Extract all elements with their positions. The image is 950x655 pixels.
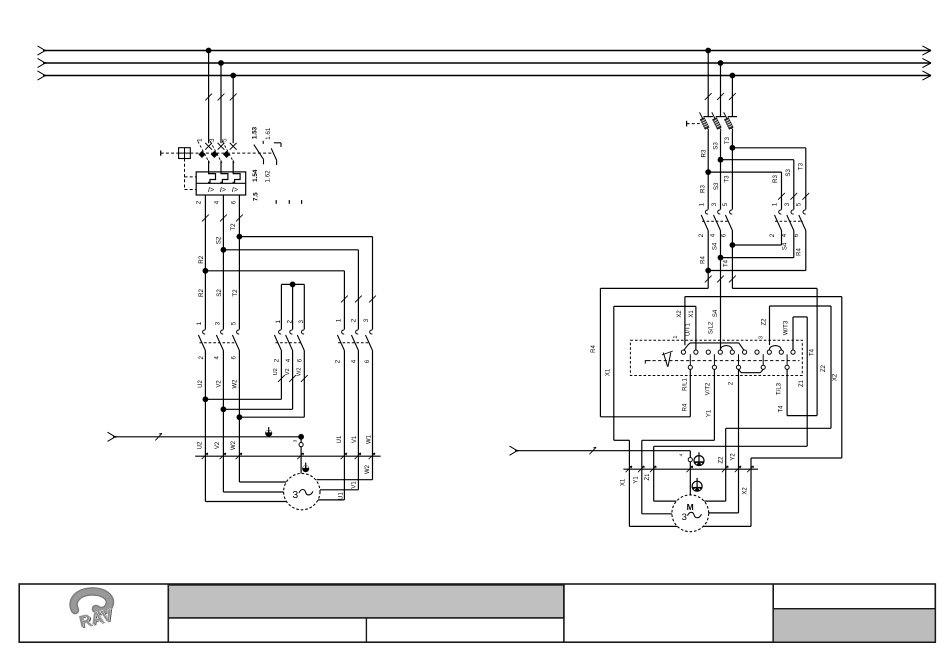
svg-text:5: 5: [795, 202, 802, 206]
svg-text:X2: X2: [743, 487, 749, 495]
svg-text:R4: R4: [797, 248, 803, 256]
svg-text:T4: T4: [778, 405, 784, 413]
svg-text:S3: S3: [712, 142, 719, 150]
svg-text:W2: W2: [231, 440, 237, 450]
svg-text:S4: S4: [713, 242, 719, 250]
svg-text:R2: R2: [198, 288, 205, 296]
svg-text:U1: U1: [339, 492, 345, 500]
svg-text:U1: U1: [337, 435, 343, 443]
svg-text:1: 1: [275, 320, 282, 324]
svg-text:W2: W2: [232, 379, 238, 389]
svg-text:5: 5: [722, 202, 729, 206]
svg-text:1: 1: [699, 202, 706, 206]
svg-text:X2: X2: [677, 310, 683, 318]
svg-text:R2: R2: [198, 255, 205, 263]
svg-text:Y2: Y2: [731, 453, 737, 461]
svg-text:2: 2: [287, 320, 294, 324]
svg-text:2: 2: [769, 233, 776, 237]
svg-text:R3: R3: [701, 149, 708, 157]
svg-text:R3: R3: [700, 184, 707, 192]
svg-text:1: 1: [196, 321, 203, 325]
svg-text:T3: T3: [723, 175, 730, 183]
svg-text:6: 6: [231, 200, 238, 204]
svg-text:R3: R3: [772, 174, 779, 182]
svg-text:3: 3: [209, 138, 216, 142]
svg-text:6: 6: [230, 356, 237, 360]
svg-text:T4: T4: [724, 259, 730, 267]
svg-text:U2: U2: [273, 368, 279, 375]
svg-text:R4: R4: [683, 403, 689, 411]
svg-text:6: 6: [720, 233, 727, 237]
svg-text:2: 2: [334, 359, 341, 363]
svg-text:4: 4: [781, 233, 788, 237]
svg-text:I>: I>: [220, 185, 226, 194]
svg-text:W2: W2: [365, 464, 371, 474]
svg-text:V2: V2: [217, 380, 223, 388]
svg-text:1.61: 1.61: [265, 127, 272, 140]
svg-text:M: M: [687, 502, 694, 512]
svg-text:V/T2: V/T2: [705, 382, 711, 395]
svg-text:S3: S3: [785, 168, 792, 176]
svg-text:2: 2: [729, 381, 735, 385]
svg-text:S4: S4: [713, 309, 719, 317]
svg-text:5: 5: [230, 321, 237, 325]
svg-text:Z2: Z2: [821, 364, 827, 372]
svg-text:6: 6: [364, 359, 371, 363]
svg-text:X2: X2: [833, 373, 839, 381]
svg-text:V2: V2: [285, 368, 291, 375]
svg-text:W/T3: W/T3: [783, 320, 789, 335]
svg-text:S/L2: S/L2: [709, 321, 715, 334]
svg-text:T3: T3: [797, 162, 804, 170]
svg-text:3: 3: [784, 202, 791, 206]
svg-text:4: 4: [350, 359, 357, 363]
svg-text:4: 4: [214, 200, 221, 204]
svg-text:X1: X1: [606, 368, 612, 376]
svg-text:1.53: 1.53: [252, 126, 259, 139]
svg-text:3: 3: [363, 318, 370, 322]
svg-text:7.5: 7.5: [252, 192, 259, 201]
svg-text:T4: T4: [809, 348, 815, 356]
svg-text:1: 1: [772, 202, 779, 206]
svg-text:5: 5: [221, 138, 228, 142]
svg-text:U2: U2: [198, 441, 204, 449]
svg-text:R/L1: R/L1: [683, 378, 689, 391]
svg-text:R4: R4: [591, 345, 597, 353]
svg-text:W1: W1: [367, 434, 373, 444]
svg-text:4: 4: [285, 358, 292, 362]
svg-text:T2: T2: [230, 223, 237, 231]
svg-text:U/T1: U/T1: [685, 322, 691, 336]
svg-text:3: 3: [292, 489, 298, 501]
svg-text:U2: U2: [198, 380, 204, 388]
svg-text:T3: T3: [724, 136, 731, 144]
svg-text:I>: I>: [232, 185, 238, 194]
svg-text:I>: I>: [208, 185, 214, 194]
svg-text:T/L3: T/L3: [777, 382, 783, 395]
svg-text:1.62: 1.62: [264, 170, 271, 183]
svg-text:1.54: 1.54: [252, 169, 259, 182]
svg-text:4: 4: [709, 233, 716, 237]
svg-text:1: 1: [336, 318, 343, 322]
svg-text:3: 3: [759, 336, 765, 339]
svg-text:3: 3: [682, 512, 687, 523]
svg-text:2: 2: [698, 233, 705, 237]
svg-text:Z2: Z2: [719, 456, 725, 464]
svg-text:V1: V1: [352, 435, 358, 443]
svg-text:T2: T2: [232, 289, 239, 297]
svg-text:V2: V2: [215, 441, 221, 449]
svg-text:X1: X1: [689, 310, 695, 318]
svg-text:W2: W2: [297, 368, 303, 376]
svg-text:2: 2: [274, 358, 281, 362]
svg-text:3: 3: [293, 439, 299, 442]
svg-text:X1: X1: [620, 478, 626, 486]
svg-text:Y1: Y1: [634, 476, 640, 484]
svg-text:3: 3: [711, 202, 718, 206]
svg-text:Z2: Z2: [762, 318, 768, 326]
svg-text:3: 3: [298, 320, 305, 324]
svg-text:RAV: RAV: [77, 606, 114, 631]
svg-text:4: 4: [678, 453, 684, 456]
svg-text:Y1: Y1: [707, 409, 713, 417]
svg-text:6: 6: [297, 358, 304, 362]
svg-text:4: 4: [214, 356, 221, 360]
svg-text:V1: V1: [351, 481, 357, 489]
svg-text:1: 1: [673, 335, 679, 338]
svg-text:Z1: Z1: [799, 379, 805, 387]
svg-text:S2: S2: [216, 236, 223, 244]
svg-text:3: 3: [215, 321, 222, 325]
svg-text:S3: S3: [713, 182, 720, 190]
svg-text:1: 1: [197, 138, 204, 142]
svg-text:S2: S2: [216, 289, 223, 297]
svg-text:S4: S4: [783, 242, 789, 250]
svg-text:Z1: Z1: [645, 473, 651, 481]
svg-text:R4: R4: [700, 256, 706, 264]
svg-text:2: 2: [196, 200, 203, 204]
svg-text:2: 2: [198, 356, 205, 360]
svg-text:2: 2: [350, 318, 357, 322]
